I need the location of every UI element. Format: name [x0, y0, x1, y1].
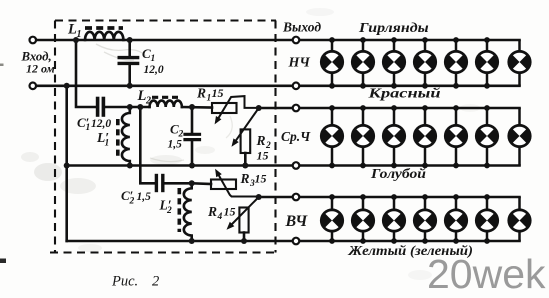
lamp HL21 (ВЧ garland): [507, 197, 531, 241]
svg-text:1,5: 1,5: [137, 191, 152, 203]
capacitor C2 (shunt, mid band): [185, 107, 200, 166]
svg-text:2: 2: [166, 206, 172, 216]
svg-text:1: 1: [86, 123, 91, 133]
svg-text:12,0: 12,0: [144, 64, 164, 76]
wire: ВЧ top rail from R3 junction to garland: [259, 196, 520, 199]
svg-text:Голубой: Голубой: [370, 167, 426, 182]
wire: СрЧ top rail from R1 junction to garland: [259, 107, 520, 110]
core of L1 (dashed): [85, 26, 123, 30]
svg-text:ВЧ: ВЧ: [285, 213, 309, 230]
wire: L'2 junction to R3: [192, 182, 211, 185]
svg-text:1: 1: [151, 54, 156, 64]
svg-text:R: R: [240, 171, 250, 186]
capacitor C'1 (series, horizontal): [98, 99, 130, 116]
wire: branch x140 from node row down to C'2 row (crosses СрЧ rail): [140, 107, 154, 183]
resistor R3 (variable, series high band): [211, 169, 259, 197]
lamp HL19 (ВЧ garland): [444, 194, 468, 244]
terminal: Выход НЧ top: [293, 37, 300, 44]
lamp HL6 (НЧ garland): [475, 37, 499, 89]
inductor L2 (coil, mid band): [150, 101, 182, 107]
svg-text:2: 2: [129, 197, 135, 207]
lamp HL20 (ВЧ garland): [475, 194, 499, 244]
lamp HL15 (ВЧ garland): [320, 194, 344, 244]
terminal: Выход ВЧ bottom: [293, 238, 300, 245]
wire: branch from top rail down to C'1 row: [76, 40, 96, 107]
svg-text:12 ом: 12 ом: [26, 62, 55, 76]
lamp HL1 (НЧ garland): [320, 37, 344, 89]
svg-text:L: L: [67, 22, 77, 38]
resistor R4 (variable, shunt high band): [227, 197, 259, 241]
resistor R1 (variable, series mid band): [212, 96, 259, 124]
svg-text:Рис.: Рис.: [111, 274, 138, 290]
wire: common vertical x66.7 tying bottom rails: [65, 86, 68, 241]
svg-text:4: 4: [217, 212, 223, 222]
lamp HL7 (НЧ garland): [507, 40, 531, 86]
lamp HL11 (СрЧ garland): [413, 105, 437, 168]
lamp HL17 (ВЧ garland): [382, 194, 406, 244]
svg-text:20wek: 20wek: [427, 251, 546, 297]
svg-text:15: 15: [212, 86, 224, 100]
capacitor C1 (between top rail and НЧ bottom rail): [119, 40, 137, 86]
terminal: Выход СрЧ bottom: [293, 162, 300, 169]
lamp HL4 (НЧ garland): [413, 37, 437, 89]
core of L'2 (dashed): [178, 188, 182, 232]
svg-text:Выход: Выход: [282, 20, 321, 35]
lamp HL18 (ВЧ garland): [413, 194, 437, 244]
svg-text:Красный: Красный: [367, 86, 440, 100]
svg-text:2: 2: [145, 96, 151, 107]
wire: НЧ bottom rail from input- to garland right end: [36, 85, 519, 88]
svg-text:15: 15: [224, 205, 236, 219]
capacitor C'2 (series, high band): [156, 176, 191, 191]
wire: top rail (НЧ top) from input to garland right end: [36, 39, 519, 42]
svg-text:НЧ: НЧ: [288, 56, 311, 71]
wire: node row from L'1 junction to L2: [130, 106, 150, 109]
lamp HL5 (НЧ garland): [444, 37, 468, 89]
svg-text:1: 1: [77, 29, 82, 40]
svg-text:12,0: 12,0: [91, 118, 111, 130]
svg-text:R: R: [256, 133, 266, 148]
svg-text:15: 15: [255, 172, 267, 186]
lamp HL12 (СрЧ garland): [444, 105, 468, 168]
svg-text:1: 1: [105, 139, 110, 149]
svg-text:1,5: 1,5: [168, 139, 183, 151]
svg-text:Гирлянды: Гирлянды: [358, 21, 429, 36]
wire: СрЧ bottom rail y165.5: [67, 164, 520, 167]
core of L'1 (dashed): [116, 119, 120, 157]
lamp HL10 (СрЧ garland): [382, 105, 406, 168]
lamp garlands: [320, 37, 532, 244]
terminal: Выход ВЧ top: [293, 194, 300, 201]
core of L2 (dashed): [152, 96, 178, 99]
svg-text:R: R: [207, 204, 217, 219]
terminal: input bottom: [30, 83, 37, 90]
svg-text:R: R: [196, 86, 206, 101]
wire: ВЧ bottom rail y241: [67, 240, 520, 243]
svg-text:Ср.Ч: Ср.Ч: [281, 129, 311, 144]
lamp HL3 (НЧ garland): [382, 37, 406, 89]
lamp HL14 (СрЧ garland): [507, 108, 531, 166]
terminal: input top: [30, 37, 37, 44]
svg-text:15: 15: [257, 149, 269, 163]
lamp HL16 (ВЧ garland): [351, 194, 375, 244]
inductor L'1 (vertical coil to ground rail): [122, 107, 130, 166]
terminal: Выход НЧ bottom: [293, 83, 300, 90]
terminal: Выход СрЧ top: [293, 105, 300, 112]
lamp HL13 (СрЧ garland): [475, 105, 499, 168]
lamp HL9 (СрЧ garland): [351, 105, 375, 168]
svg-text:L: L: [137, 88, 147, 104]
inductor L1 (coil on top rail): [85, 32, 123, 40]
resistor R2 (variable, shunt mid band): [232, 108, 259, 166]
lamp HL2 (НЧ garland): [351, 37, 375, 89]
svg-text:2: 2: [152, 274, 159, 290]
dashed enclosure box: [50, 21, 276, 253]
wire: L2 to R1: [182, 106, 212, 109]
lamp HL8 (СрЧ garland): [320, 105, 344, 168]
inductor L'2 (vertical coil to ground rail): [184, 183, 192, 241]
